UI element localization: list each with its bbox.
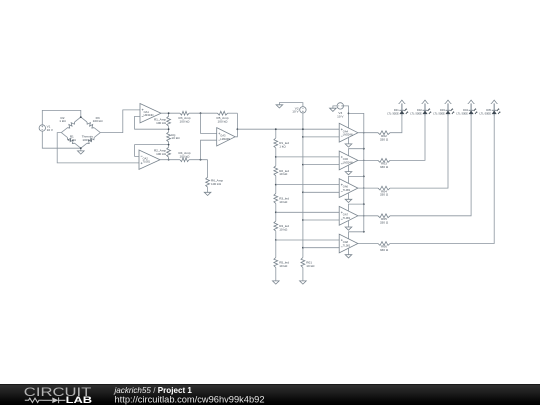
wire (235, 113, 237, 137)
svg-text:OA5: OA5 (343, 157, 349, 161)
resistor R05 (378, 214, 390, 225)
resistor R1_led (274, 129, 289, 157)
op-amp OA4 (339, 123, 358, 142)
ground (300, 281, 307, 284)
svg-text:TL081: TL081 (343, 216, 351, 220)
node rail crossing 1 (363, 132, 364, 133)
svg-text:http://circuitlab.com/cw96hv99: http://circuitlab.com/cw96hv99k4b92 (115, 395, 265, 405)
svg-text:D04: D04 (463, 108, 468, 112)
wire (390, 116, 448, 189)
wire (100, 110, 140, 133)
svg-text:TL081: TL081 (143, 160, 151, 164)
svg-text:OA3: OA3 (220, 133, 226, 137)
wire (276, 156, 339, 158)
svg-text:LM324N: LM324N (343, 160, 353, 164)
svg-text:TL081: TL081 (343, 244, 351, 248)
wire (390, 116, 471, 216)
wire (161, 112, 180, 114)
svg-text:100 kΩ: 100 kΩ (218, 119, 229, 123)
wire (189, 159, 208, 161)
wire (237, 128, 339, 130)
svg-text:OA2: OA2 (143, 156, 149, 160)
wire (349, 176, 364, 183)
LED D03 (433, 100, 454, 116)
resistor R5_led (274, 240, 289, 281)
resistor R04 (378, 186, 390, 197)
svg-text:330 Ω: 330 Ω (380, 248, 389, 252)
node supply branch 5 (363, 231, 365, 233)
svg-text:LTL-30EE: LTL-30EE (456, 112, 468, 116)
resistor R1 (bridge bottom-left) (61, 133, 81, 149)
node bridge top (80, 116, 82, 118)
node A (200, 112, 202, 114)
node supply branch 4 (363, 203, 365, 205)
op-amp OA5 (339, 151, 358, 170)
wire (333, 106, 337, 108)
wire (349, 232, 364, 239)
svg-text:D05: D05 (486, 108, 491, 112)
resistor R06 (378, 242, 390, 253)
node OA1 out (168, 112, 170, 114)
node rail branch 5 (302, 247, 304, 249)
wire (279, 103, 303, 107)
resistor R2_led (274, 157, 289, 185)
svg-text:OA1: OA1 (144, 110, 150, 114)
wire (349, 113, 364, 231)
svg-text:OA6: OA6 (343, 185, 349, 189)
svg-text:330 Ω: 330 Ω (380, 165, 389, 169)
wire (390, 116, 402, 133)
voltage source V3 (337, 103, 344, 119)
wire (348, 221, 350, 228)
wire (303, 164, 339, 166)
wire (276, 184, 339, 186)
svg-text:D01: D01 (394, 108, 399, 112)
node rail branch 1 (302, 136, 304, 138)
ground (345, 144, 352, 147)
wire (42, 131, 81, 148)
LED D01 (387, 100, 408, 116)
svg-text:100 kΩ: 100 kΩ (156, 152, 167, 156)
svg-text:LM324N: LM324N (343, 133, 353, 137)
ground (330, 108, 337, 111)
svg-text:10 kΩ: 10 kΩ (279, 228, 288, 232)
svg-text:10 kΩ: 10 kΩ (279, 172, 288, 176)
wire (358, 243, 378, 245)
node rail crossing 2 (363, 160, 364, 161)
node OA2 out (168, 159, 170, 161)
svg-text:LTL-30EE: LTL-30EE (480, 112, 492, 116)
wire (302, 113, 304, 258)
wire (358, 132, 378, 134)
svg-text:OA7: OA7 (343, 212, 349, 216)
op-amp OA1 (140, 104, 161, 123)
node rail branch 3 (302, 191, 304, 193)
svg-text:10 kΩ: 10 kΩ (279, 264, 288, 268)
wire (358, 187, 378, 189)
svg-text:10 kΩ: 10 kΩ (68, 138, 77, 142)
wire (303, 219, 339, 221)
wire (57, 133, 139, 163)
wire (276, 211, 339, 213)
op-amp OA7 (339, 206, 358, 225)
svg-text:10 V: 10 V (292, 110, 299, 114)
LED D02 (410, 100, 431, 116)
wire (135, 145, 169, 157)
svg-text:10 V: 10 V (337, 114, 344, 118)
svg-text:100 kΩ: 100 kΩ (180, 119, 191, 123)
wire (358, 215, 378, 217)
wire (303, 191, 339, 193)
wire (303, 136, 339, 138)
op-amp OA6 (339, 179, 358, 198)
svg-text:1 kΩ: 1 kΩ (279, 144, 286, 148)
node supply branch 3 (363, 176, 365, 178)
resistor R6_Amp (206, 160, 224, 193)
voltage source V1 (39, 125, 54, 132)
node ladder tap 2 (275, 156, 277, 158)
resistor R3_led (274, 185, 289, 213)
wire (42, 110, 81, 124)
logo wire and resistor squiggle (25, 397, 66, 403)
svg-text:100 kΩ: 100 kΩ (93, 119, 104, 123)
svg-text:OA4: OA4 (343, 129, 349, 133)
svg-text:330 Ω: 330 Ω (380, 137, 389, 141)
svg-text:10 kΩ: 10 kΩ (306, 264, 315, 268)
node OA2 fb (168, 144, 170, 146)
svg-text:LAB: LAB (66, 395, 93, 405)
svg-text:100 kΩ: 100 kΩ (180, 155, 191, 159)
node OA3 out (237, 128, 239, 130)
svg-text:TL081: TL081 (343, 188, 351, 192)
node supply branch 2 (363, 148, 365, 150)
resistor R03 (378, 159, 390, 170)
resistor R3 (bridge top-right) (81, 116, 103, 133)
svg-text:100 kΩ: 100 kΩ (211, 182, 222, 186)
ground (204, 192, 211, 195)
op-amp OA8 (339, 234, 358, 253)
wire (348, 165, 350, 172)
node ladder tap 5 (275, 239, 277, 241)
wire (390, 116, 494, 244)
node rail branch 2 (302, 164, 304, 166)
wire (348, 137, 350, 144)
resistor R1_Amp (154, 113, 171, 129)
wire (349, 204, 364, 211)
resistor R2 (bridge top-left) (59, 116, 81, 133)
resistor R4_led (274, 212, 289, 240)
footer bar (0, 384, 540, 405)
LED D05 (480, 100, 501, 116)
node ladder tap 4 (275, 211, 277, 213)
wire (201, 140, 217, 160)
node ladder tap 3 (275, 184, 277, 186)
ground (345, 172, 352, 175)
wire (303, 247, 339, 249)
wire (348, 193, 350, 200)
svg-text:330 Ω: 330 Ω (380, 220, 389, 224)
resistor R3_Amp (178, 111, 190, 123)
svg-text:10 V: 10 V (47, 128, 54, 132)
svg-text:1 kΩ: 1 kΩ (59, 119, 66, 123)
node rail crossing 4 (363, 215, 364, 216)
wire (189, 112, 218, 114)
svg-text:D03: D03 (440, 108, 445, 112)
ground (345, 255, 352, 258)
ground (78, 148, 85, 154)
op-amp OA3 (217, 128, 235, 146)
thermistor Thermis (bridge bottom-right) (81, 133, 101, 149)
voltage source V2 (292, 106, 306, 113)
wire (348, 248, 350, 255)
wire (135, 116, 169, 129)
resistor R02 (378, 131, 390, 142)
logo diode (52, 398, 58, 404)
wire (201, 113, 217, 133)
ground (345, 227, 352, 230)
resistor R2_Amp (154, 145, 171, 160)
svg-text:100 kΩ: 100 kΩ (156, 121, 167, 125)
svg-text:LTL-30EE: LTL-30EE (387, 112, 399, 116)
node ladder tap 1 (275, 128, 277, 130)
svg-text:D02: D02 (417, 108, 422, 112)
svg-text:LM324N: LM324N (220, 137, 230, 141)
op-amp OA2 (139, 150, 160, 169)
node OA1 fb (168, 128, 170, 130)
svg-text:10 kΩ: 10 kΩ (171, 136, 180, 140)
svg-text:330 Ω: 330 Ω (380, 193, 389, 197)
wire (228, 112, 238, 114)
resistor R01 (301, 258, 315, 281)
ground (345, 199, 352, 202)
svg-text:100 kΩ: 100 kΩ (82, 138, 93, 142)
wire (390, 116, 425, 161)
node bridge bottom (80, 147, 82, 149)
svg-text:LTL-30EE: LTL-30EE (433, 112, 445, 116)
node rail crossing 3 (363, 187, 364, 188)
ground (276, 105, 283, 108)
resistor Rg (167, 129, 181, 144)
wire (160, 159, 180, 161)
resistor R5_Amp (216, 111, 228, 123)
svg-text:LTL-30EE: LTL-30EE (410, 112, 422, 116)
wire (358, 159, 378, 161)
node B (200, 159, 202, 161)
wire (344, 106, 349, 128)
wire (349, 149, 364, 156)
node rail branch 4 (302, 219, 304, 221)
svg-text:LM324N: LM324N (144, 113, 154, 117)
svg-text:10 kΩ: 10 kΩ (279, 200, 288, 204)
wire (276, 239, 339, 241)
node V3 feed (348, 113, 350, 115)
svg-text:OA8: OA8 (343, 240, 349, 244)
node V2 out (302, 128, 304, 130)
LED D04 (456, 100, 477, 116)
ground (273, 281, 280, 284)
resistor R4_Amp (178, 151, 190, 161)
